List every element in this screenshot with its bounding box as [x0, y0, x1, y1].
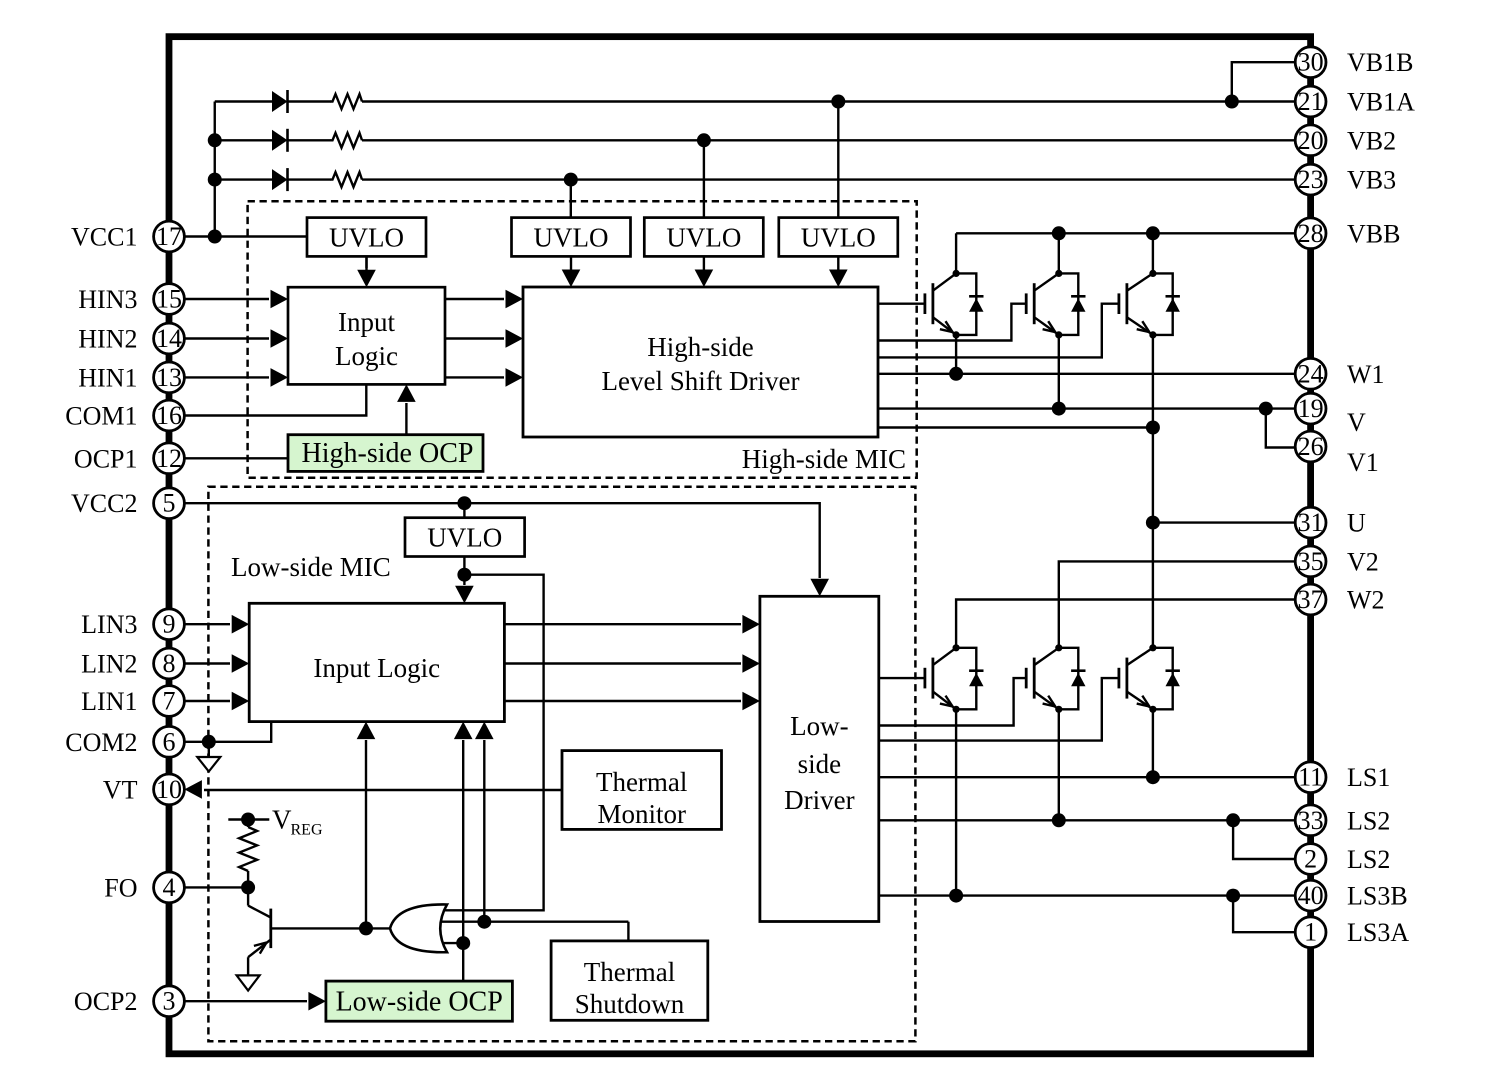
svg-text:33: 33 — [1298, 806, 1324, 835]
svg-text:V1: V1 — [1347, 448, 1379, 477]
UVLO block U5 — [405, 518, 525, 557]
transistor IGBT Q3 (high side U phase) — [1119, 270, 1157, 339]
svg-text:W1: W1 — [1347, 360, 1385, 389]
pin 6 COM2 — [65, 726, 184, 757]
svg-text:side: side — [798, 749, 842, 779]
svg-text:VB3: VB3 — [1347, 166, 1396, 195]
wire VCC1 to UVLO1 — [183, 235, 307, 237]
wire VCC1 feed vertical — [214, 102, 216, 237]
svg-text:W2: W2 — [1347, 586, 1385, 615]
pin 28 VBB — [1295, 218, 1400, 249]
transistor IGBT Q7 (low side U phase) — [1119, 644, 1157, 713]
wire LIN2 to Input Logic — [183, 654, 249, 673]
node junction VCC1-VB2 feed — [208, 133, 222, 147]
svg-text:4: 4 — [163, 873, 176, 902]
svg-text:37: 37 — [1298, 585, 1324, 614]
wire driver to Q6 gate — [879, 678, 1026, 725]
node junction COM2 ground branch — [202, 735, 216, 749]
svg-text:16: 16 — [156, 401, 182, 430]
wire logic to driver ch1 — [445, 368, 523, 387]
diode D7 freewheel — [956, 648, 983, 710]
svg-text:Level Shift Driver: Level Shift Driver — [602, 366, 800, 396]
svg-text:5: 5 — [163, 489, 176, 518]
wire Q5 emitter to LS3B — [955, 709, 957, 895]
svg-text:LS1: LS1 — [1347, 763, 1390, 792]
svg-text:8: 8 — [163, 649, 176, 678]
svg-text:Shutdown: Shutdown — [575, 989, 685, 1019]
svg-text:High-side OCP: High-side OCP — [302, 438, 474, 469]
svg-text:V: V — [1347, 408, 1366, 437]
svg-text:LIN3: LIN3 — [81, 610, 137, 639]
pin 12 OCP1 — [74, 443, 184, 474]
svg-text:LIN1: LIN1 — [81, 687, 137, 716]
node junction VCC2-UVLO5 — [457, 496, 471, 510]
svg-text:Low-side OCP: Low-side OCP — [336, 987, 503, 1018]
wire COM1 to Input Logic — [183, 384, 366, 415]
wire VB1B to VB1A row — [1232, 62, 1296, 101]
svg-text:COM1: COM1 — [65, 402, 137, 431]
pin 17 VCC1 — [71, 221, 184, 252]
Thermal Monitor block — [562, 751, 722, 830]
wire VCC2 down to UVLO5 — [463, 503, 465, 518]
svg-text:UVLO: UVLO — [427, 523, 502, 553]
wire OR output to Input Logic arrow — [357, 722, 376, 929]
High-side MIC dashed boundary — [248, 201, 917, 478]
wire UVLO2 to Level Shift arrow — [562, 256, 581, 287]
svg-text:6: 6 — [163, 727, 176, 756]
svg-text:HIN3: HIN3 — [78, 285, 137, 314]
pin 7 LIN1 — [81, 686, 184, 717]
pin 24 W1 — [1295, 358, 1384, 389]
svg-text:23: 23 — [1298, 165, 1324, 194]
wire driver sense to U node — [878, 426, 1153, 428]
wire LS3B to pin 1 LS3A — [1233, 896, 1294, 933]
svg-text:U: U — [1347, 509, 1366, 538]
wire COM2 to Input Logic — [183, 722, 271, 742]
pin 35 V2 — [1295, 546, 1379, 577]
svg-text:13: 13 — [156, 363, 182, 392]
svg-text:12: 12 — [156, 444, 182, 473]
wire UVLO5 output — [455, 557, 474, 604]
wire Q2 collector to VBB — [1058, 233, 1060, 273]
svg-text:Monitor: Monitor — [597, 799, 686, 829]
pin 31 U — [1295, 507, 1366, 538]
node junction LS3 branch — [1226, 889, 1240, 903]
pin 40 LS3B — [1295, 880, 1407, 911]
svg-text:VB1B: VB1B — [1347, 48, 1413, 77]
wire shutdown elbow to Thermal Shutdown — [627, 922, 629, 941]
wire logic to driver chU — [504, 615, 760, 634]
diode D8 freewheel — [1059, 648, 1086, 710]
pin 9 LIN3 — [81, 609, 184, 640]
svg-text:LIN2: LIN2 — [81, 650, 137, 679]
wire Q5 collector to W2 pin — [956, 600, 1296, 649]
svg-text:High-side: High-side — [647, 332, 754, 362]
svg-text:REG: REG — [291, 822, 323, 839]
wire VB2 to UVLO3 — [703, 140, 705, 217]
node junction VB2-UVLO3 — [697, 133, 711, 147]
node junction VCC1-VB3 feed — [208, 173, 222, 187]
svg-text:Thermal: Thermal — [584, 957, 675, 987]
Input Logic block (low side) — [249, 603, 504, 721]
transistor IGBT Q2 (high side V phase) — [1026, 270, 1062, 339]
svg-text:OCP2: OCP2 — [74, 987, 138, 1016]
wire Q4 emitter to ground — [247, 957, 249, 975]
svg-text:17: 17 — [156, 222, 182, 251]
Input Logic block (high side) — [288, 287, 445, 384]
wire Q6 emitter to LS2 — [1058, 709, 1060, 820]
svg-text:VT: VT — [103, 775, 138, 804]
svg-text:Driver: Driver — [784, 785, 854, 815]
wire VCC2 to Low-side Driver — [183, 503, 829, 596]
node junction OCP branch — [456, 936, 470, 950]
pin 21 VB1A — [1295, 86, 1415, 117]
pin 1 LS3A — [1295, 917, 1409, 948]
svg-text:40: 40 — [1298, 881, 1324, 910]
wire LIN1 to Input Logic — [183, 692, 249, 711]
node junction VB1B-VB1A — [1225, 95, 1239, 109]
bootstrap diode D1 and resistor R1 row — [215, 90, 1296, 113]
svg-text:VCC2: VCC2 — [71, 489, 137, 518]
High-side OCP block — [288, 435, 483, 472]
node junction LS2 branch — [1226, 813, 1240, 827]
pin 10 VT — [103, 774, 185, 805]
IC outer boundary box — [169, 37, 1311, 1054]
label Low-side MIC — [231, 552, 391, 582]
node junction Q2-V — [1052, 402, 1066, 416]
diode D9 freewheel — [1153, 648, 1180, 710]
wire logic to driver ch3 — [445, 290, 523, 309]
UVLO block U3 — [644, 218, 763, 257]
UVLO block U2 — [512, 218, 631, 257]
wire Q1 collector to VBB — [955, 233, 957, 273]
wire driver to Q5 gate — [879, 677, 925, 679]
wire driver to Q1 gate — [878, 303, 925, 305]
pin 5 VCC2 — [71, 488, 184, 519]
label High-side MIC — [742, 444, 906, 474]
pin 14 HIN2 — [78, 323, 184, 354]
wire LIN3 to Input Logic — [183, 615, 249, 634]
svg-text:Logic: Logic — [335, 341, 398, 371]
svg-text:10: 10 — [156, 775, 182, 804]
wire Q7 emitter to LS1 — [1152, 709, 1154, 777]
transistor IGBT Q6 (low side V2 phase) — [1026, 644, 1062, 713]
wire logic to driver ch2 — [445, 329, 523, 348]
svg-text:UVLO: UVLO — [329, 223, 404, 253]
svg-text:VB1A: VB1A — [1347, 88, 1415, 117]
svg-text:24: 24 — [1298, 359, 1324, 388]
pin 33 LS2 — [1295, 805, 1390, 836]
node junction VCC1 pin — [208, 230, 222, 244]
wire driver to Q7 gate — [879, 678, 1119, 741]
svg-text:VBB: VBB — [1347, 219, 1400, 248]
High-side Level Shift Driver block — [523, 287, 878, 437]
pin 3 OCP2 — [74, 986, 184, 1017]
svg-text:UVLO: UVLO — [534, 223, 609, 253]
pin 23 VB3 — [1295, 164, 1396, 195]
wire VB3 to UVLO2 — [570, 180, 572, 218]
ground Q4 symbol — [237, 975, 260, 990]
wire OCP branch down to Low-side OCP — [462, 943, 464, 981]
svg-text:UVLO: UVLO — [801, 223, 876, 253]
pin 26 V1 — [1295, 431, 1379, 477]
pin 13 HIN1 — [78, 362, 184, 393]
wire HIN1 to Input Logic — [183, 368, 288, 387]
transistor Q4 fault output — [248, 887, 390, 957]
wire LS2 output — [879, 819, 1296, 821]
wire logic to driver chW — [504, 692, 760, 711]
wire OR bottom input — [444, 942, 463, 944]
node junction FO-VREG — [241, 880, 255, 894]
node junction Q5-LS3B — [949, 889, 963, 903]
node junction Q1-W1 — [949, 367, 963, 381]
Low-side Driver block — [760, 596, 879, 921]
svg-text:LS3B: LS3B — [1347, 882, 1408, 911]
wire OCP2 to Low-side OCP — [183, 992, 326, 1011]
node junction shutdown branch — [477, 915, 491, 929]
pin 19 V — [1295, 393, 1366, 437]
pin 8 LIN2 — [81, 648, 184, 679]
svg-text:3: 3 — [163, 987, 176, 1016]
svg-text:20: 20 — [1298, 126, 1324, 155]
node junction sense-U rail — [1146, 421, 1160, 435]
wire Q3 collector to VBB — [1152, 233, 1154, 273]
svg-text:21: 21 — [1298, 87, 1324, 116]
Low-side OCP block — [326, 981, 513, 1021]
wire Q6 collector to V2 pin — [1059, 561, 1296, 648]
svg-text:26: 26 — [1298, 432, 1324, 461]
label VREG — [272, 805, 323, 839]
svg-text:28: 28 — [1298, 219, 1324, 248]
node junction UVLO5 output — [457, 568, 471, 582]
wire UVLO4 to Level Shift arrow — [829, 256, 848, 287]
svg-text:Input Logic: Input Logic — [313, 653, 440, 683]
OR gate U6 — [390, 904, 447, 952]
svg-text:7: 7 — [163, 687, 176, 716]
wire UVLO5 to OR gate top input — [444, 575, 544, 911]
wire driver to Q3 gate — [878, 304, 1119, 358]
svg-text:HIN2: HIN2 — [78, 325, 137, 354]
wire Q2 emitter to V — [1058, 335, 1060, 409]
pin 11 LS1 — [1295, 762, 1390, 793]
wire V to V1 pin — [1266, 409, 1295, 448]
svg-text:COM2: COM2 — [65, 728, 137, 757]
diode D4 freewheel — [956, 273, 983, 335]
wire Q1 emitter to W1 — [955, 335, 957, 374]
wire logic to driver chV — [504, 654, 760, 673]
bootstrap diode D3 and resistor R3 row — [215, 168, 1296, 191]
wire OR mid input — [442, 921, 629, 923]
node junction VB3-UVLO2 — [564, 173, 578, 187]
pin 2 LS2 — [1295, 844, 1390, 875]
svg-text:LS2: LS2 — [1347, 845, 1390, 874]
svg-text:11: 11 — [1298, 763, 1323, 792]
svg-text:9: 9 — [163, 610, 176, 639]
svg-text:VCC1: VCC1 — [71, 223, 137, 252]
wire HIN2 to Input Logic — [183, 329, 288, 348]
resistor R2 pullup — [239, 820, 257, 888]
pin 37 W2 — [1295, 584, 1384, 615]
wire U pin — [1153, 521, 1296, 523]
Low-side MIC dashed boundary — [208, 487, 915, 1042]
wire FO to transistor — [183, 886, 248, 888]
svg-text:LS3A: LS3A — [1347, 918, 1409, 947]
UVLO block U1 — [307, 218, 426, 257]
diode D5 freewheel — [1059, 273, 1086, 335]
wire HIN3 to Input Logic — [183, 290, 288, 309]
wire LS3B output — [879, 894, 1296, 896]
svg-text:VB2: VB2 — [1347, 126, 1396, 155]
wire OCP to Input Logic arrow — [454, 722, 473, 944]
wire VB1A to UVLO4 — [837, 102, 839, 218]
wire High-side OCP to Input Logic arrow — [397, 384, 416, 434]
svg-text:1: 1 — [1304, 918, 1317, 947]
wire W1 output — [878, 373, 1296, 375]
wire UVLO3 to Level Shift arrow — [695, 256, 714, 287]
wire LS2 to pin 2 — [1233, 820, 1294, 859]
pin 30 VB1B — [1295, 47, 1413, 78]
pin 16 COM1 — [65, 400, 184, 431]
transistor IGBT Q1 (high side U... W1 phase) — [925, 270, 960, 339]
UVLO block U4 — [779, 218, 898, 257]
node junction VBB-Q2 — [1052, 226, 1066, 240]
node junction U rail-U pin — [1146, 516, 1160, 530]
node junction VB1A-UVLO4 — [831, 95, 845, 109]
node junction V-V1 branch — [1259, 402, 1273, 416]
pin 15 HIN3 — [78, 284, 184, 315]
wire driver to Q2 gate — [878, 304, 1026, 341]
svg-text:2: 2 — [1304, 845, 1317, 874]
node junction VBB-Q3 — [1146, 226, 1160, 240]
wire Thermal Monitor to VT arrow — [184, 780, 562, 799]
node junction Q6-LS2 — [1052, 813, 1066, 827]
svg-text:Low-side MIC: Low-side MIC — [231, 552, 391, 582]
pin 20 VB2 — [1295, 125, 1396, 156]
wire OCP1 to High-side OCP — [183, 457, 288, 459]
node junction OR output — [359, 921, 373, 935]
svg-text:Input: Input — [338, 307, 395, 337]
svg-text:19: 19 — [1298, 394, 1324, 423]
node junction Q7-LS1 — [1146, 770, 1160, 784]
svg-text:Thermal: Thermal — [596, 767, 687, 797]
node VREG terminal — [228, 813, 269, 827]
transistor IGBT Q5 (low side W2 phase) — [925, 644, 960, 713]
svg-text:V2: V2 — [1347, 547, 1379, 576]
diode D6 freewheel — [1153, 273, 1180, 335]
wire VBB rail — [956, 232, 1296, 234]
bootstrap diode D2 and resistor R2 row — [215, 129, 1296, 152]
wire shutdown to Input Logic arrow — [475, 722, 494, 922]
svg-text:HIN1: HIN1 — [78, 363, 137, 392]
svg-text:V: V — [272, 805, 292, 835]
wire LS1 output — [879, 776, 1296, 778]
svg-text:FO: FO — [104, 873, 137, 902]
svg-text:14: 14 — [156, 324, 182, 353]
svg-text:15: 15 — [156, 285, 182, 314]
svg-text:35: 35 — [1298, 547, 1324, 576]
wire Q3 emitter to U rail — [1152, 335, 1154, 648]
svg-text:Low-: Low- — [790, 711, 848, 741]
svg-text:LS2: LS2 — [1347, 806, 1390, 835]
svg-text:31: 31 — [1298, 508, 1324, 537]
svg-text:UVLO: UVLO — [666, 223, 741, 253]
pin 4 FO — [104, 872, 184, 903]
svg-text:OCP1: OCP1 — [74, 444, 138, 473]
svg-text:30: 30 — [1298, 48, 1324, 77]
wire UVLO1 to Input Logic arrow — [357, 256, 376, 287]
Thermal Shutdown block — [551, 941, 708, 1020]
ground COM2 symbol — [197, 742, 220, 772]
wire V output — [878, 407, 1295, 409]
svg-text:High-side MIC: High-side MIC — [742, 444, 906, 474]
